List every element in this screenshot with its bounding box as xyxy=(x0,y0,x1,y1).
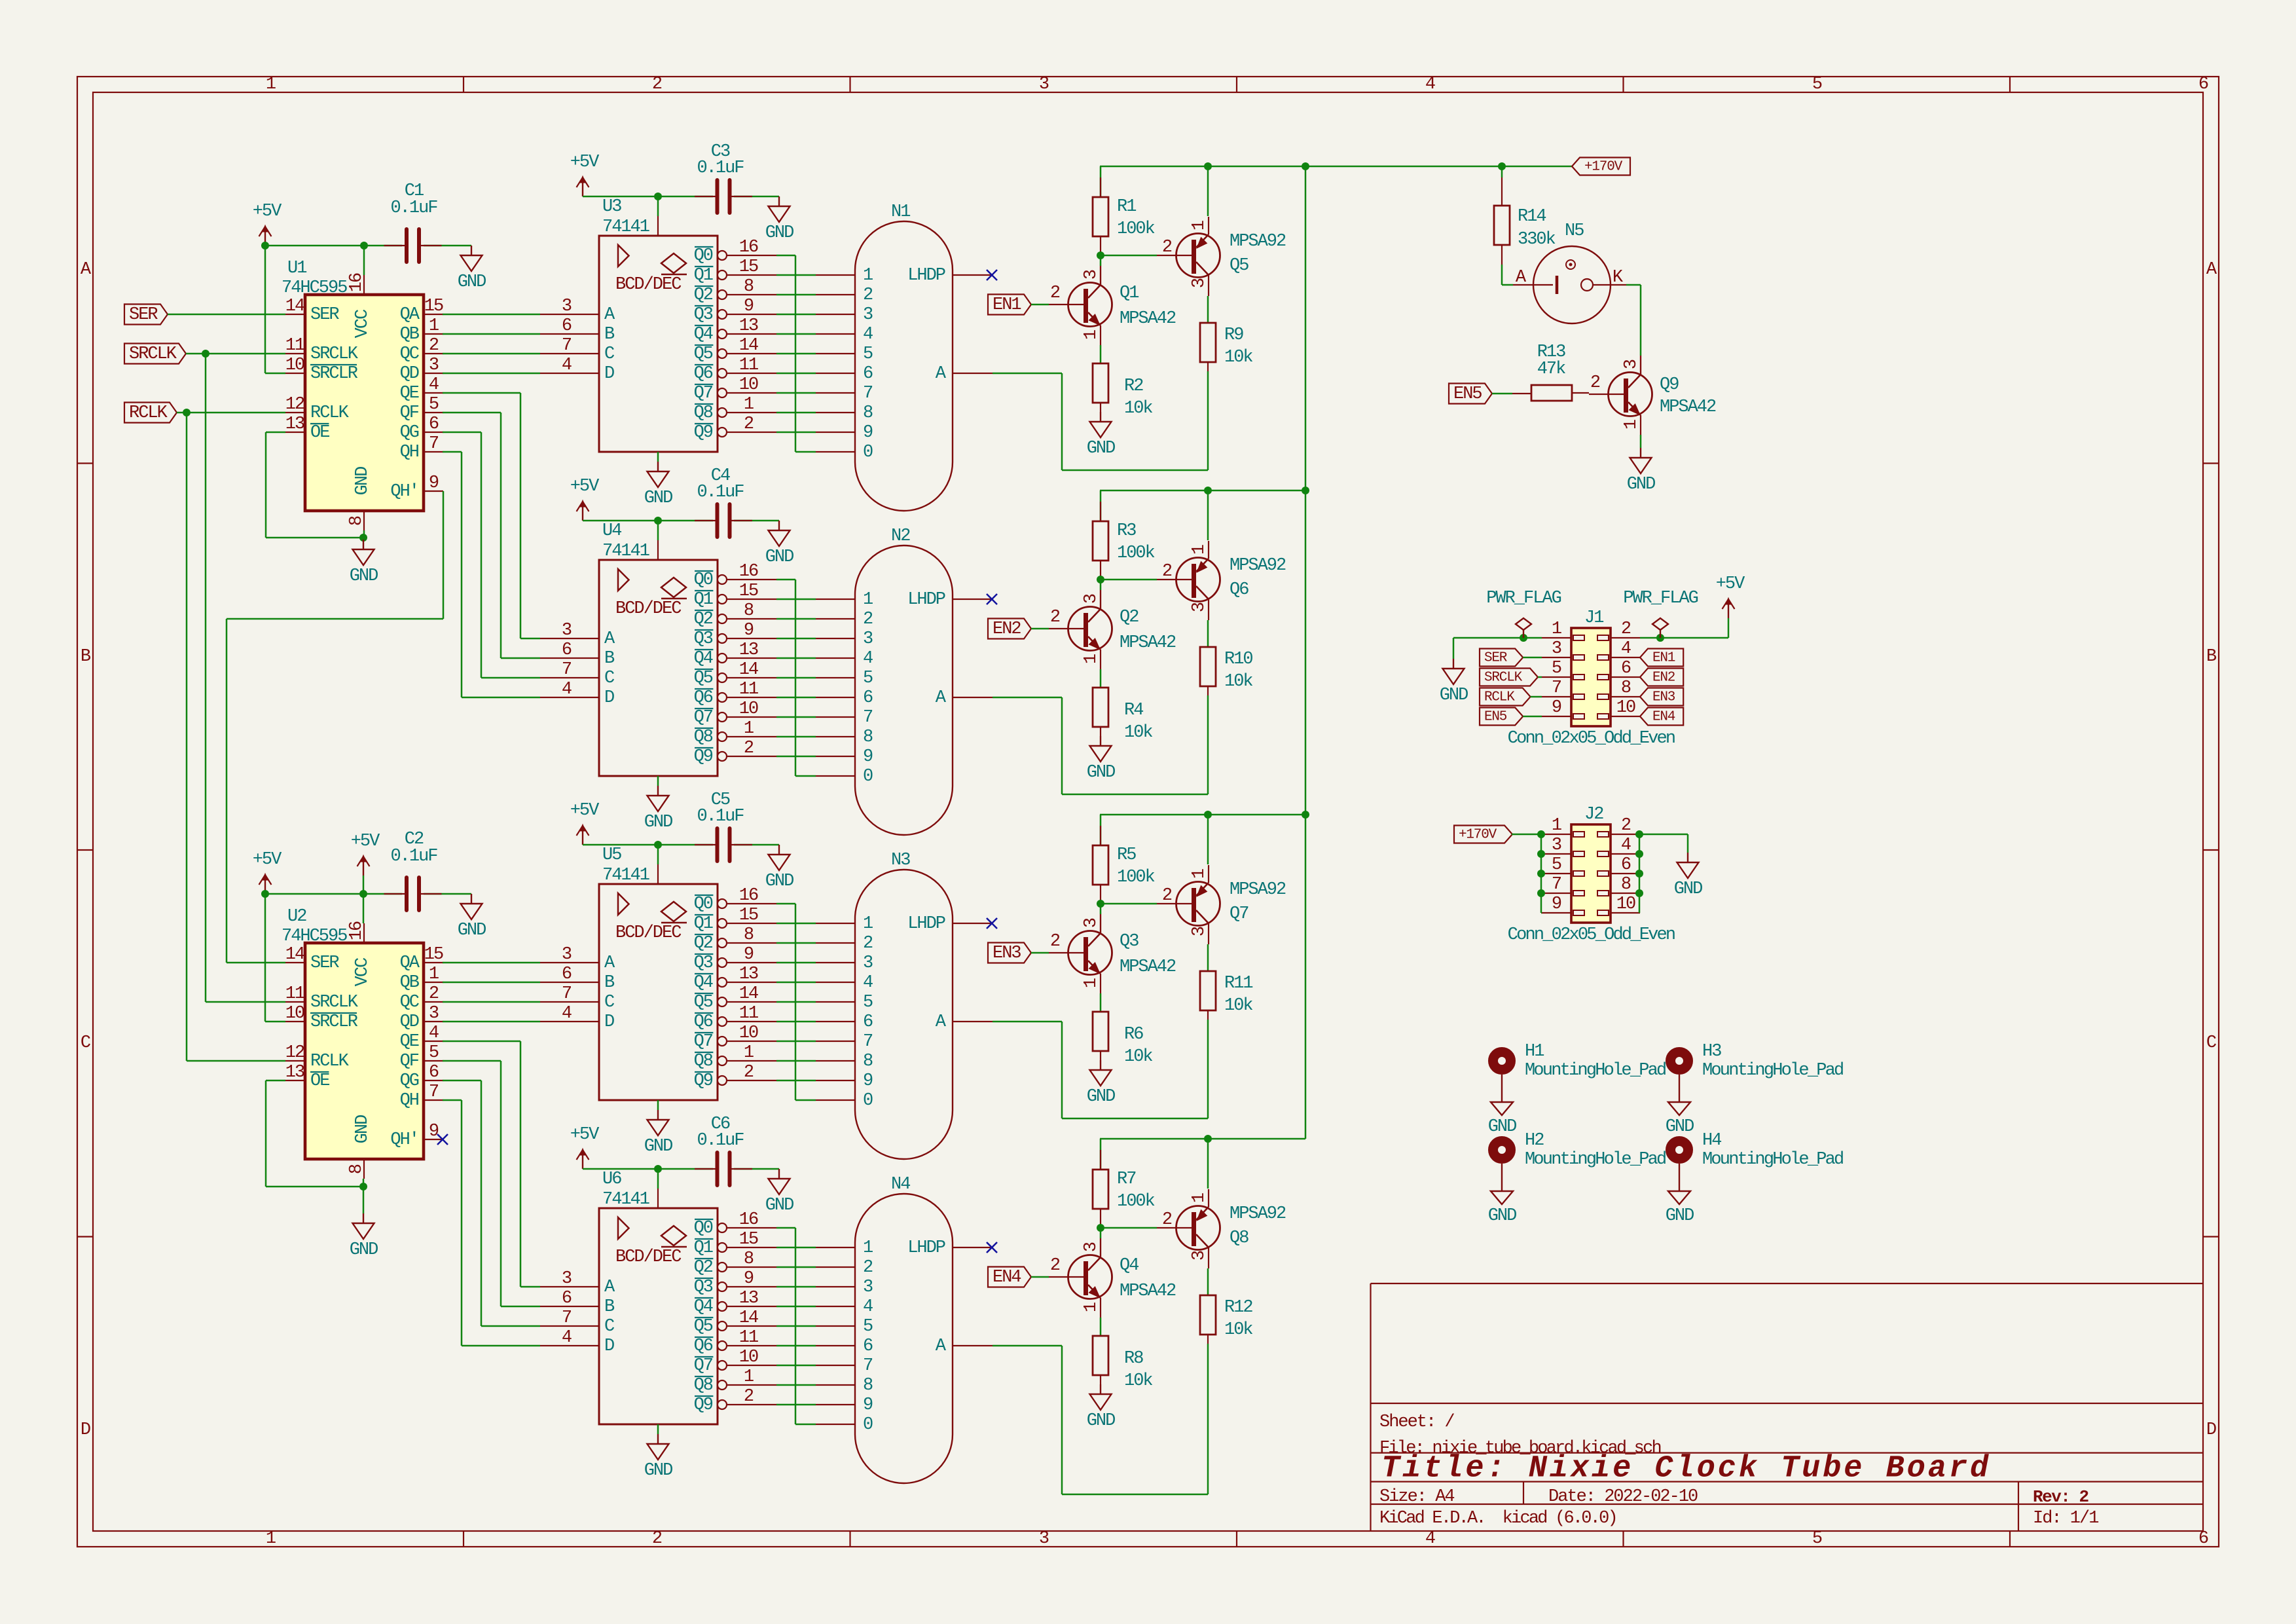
svg-text:7: 7 xyxy=(863,384,873,403)
svg-text:BCD/DEC: BCD/DEC xyxy=(615,1247,682,1267)
svg-text:74141: 74141 xyxy=(602,217,649,237)
svg-text:15: 15 xyxy=(739,581,758,601)
svg-text:2: 2 xyxy=(1621,816,1631,836)
svg-text:3: 3 xyxy=(1082,918,1101,928)
svg-text:14: 14 xyxy=(739,660,758,680)
svg-text:MountingHole_Pad: MountingHole_Pad xyxy=(1525,1061,1666,1080)
svg-text:D: D xyxy=(604,364,614,384)
svg-text:7: 7 xyxy=(863,1032,873,1052)
svg-text:16: 16 xyxy=(347,921,367,940)
svg-text:1: 1 xyxy=(863,266,873,286)
svg-text:EN3: EN3 xyxy=(1652,690,1675,705)
svg-text:14: 14 xyxy=(739,1308,758,1328)
svg-text:Q4: Q4 xyxy=(694,325,713,344)
svg-text:Q6: Q6 xyxy=(694,1337,713,1356)
svg-text:Q5: Q5 xyxy=(694,1317,713,1337)
svg-text:QH: QH xyxy=(400,443,419,462)
svg-text:16: 16 xyxy=(739,886,758,906)
svg-text:Q5: Q5 xyxy=(1230,256,1248,276)
svg-text:QG: QG xyxy=(400,1071,419,1091)
svg-text:10k: 10k xyxy=(1224,996,1252,1016)
svg-text:Q4: Q4 xyxy=(694,649,713,669)
svg-text:C: C xyxy=(604,1317,615,1337)
svg-text:+5V: +5V xyxy=(570,801,600,821)
svg-text:U2: U2 xyxy=(287,907,306,927)
svg-text:2: 2 xyxy=(652,75,662,94)
svg-text:Conn_02x05_Odd_Even: Conn_02x05_Odd_Even xyxy=(1508,729,1675,748)
svg-text:SRCLR: SRCLR xyxy=(310,364,358,384)
svg-text:11: 11 xyxy=(285,984,304,1004)
svg-text:8: 8 xyxy=(863,1052,873,1071)
svg-text:16: 16 xyxy=(739,562,758,581)
svg-text:10k: 10k xyxy=(1224,1320,1252,1340)
svg-text:9: 9 xyxy=(863,423,873,443)
svg-text:4: 4 xyxy=(429,375,439,395)
svg-text:Q4: Q4 xyxy=(1120,1256,1139,1276)
svg-text:2: 2 xyxy=(652,1529,662,1549)
svg-text:1: 1 xyxy=(863,1238,873,1258)
svg-text:GND: GND xyxy=(350,566,378,586)
svg-text:1: 1 xyxy=(429,965,439,984)
svg-text:7: 7 xyxy=(1552,875,1561,895)
svg-text:8: 8 xyxy=(863,728,873,747)
svg-text:LHDP: LHDP xyxy=(907,266,945,286)
svg-text:Q8: Q8 xyxy=(694,403,713,423)
svg-text:Q9: Q9 xyxy=(694,747,713,767)
svg-text:14: 14 xyxy=(285,297,304,316)
svg-text:H2: H2 xyxy=(1525,1131,1544,1151)
svg-text:1: 1 xyxy=(744,1367,754,1387)
svg-text:6: 6 xyxy=(863,364,873,384)
svg-text:EN1: EN1 xyxy=(993,295,1021,315)
svg-text:2: 2 xyxy=(1162,1210,1172,1230)
svg-text:GND: GND xyxy=(1440,686,1468,705)
svg-text:QA: QA xyxy=(400,953,420,973)
svg-text:GND: GND xyxy=(1087,1411,1115,1431)
svg-text:9: 9 xyxy=(744,621,754,640)
svg-text:H4: H4 xyxy=(1702,1131,1721,1151)
svg-text:1: 1 xyxy=(1552,619,1561,639)
svg-text:2: 2 xyxy=(1162,886,1172,906)
svg-text:SRCLR: SRCLR xyxy=(310,1012,358,1032)
svg-text:+170V: +170V xyxy=(1584,160,1623,175)
svg-text:2: 2 xyxy=(863,610,873,629)
svg-text:1: 1 xyxy=(1082,1302,1101,1312)
svg-text:5: 5 xyxy=(1812,75,1822,94)
svg-text:QH': QH' xyxy=(390,482,418,502)
svg-text:D: D xyxy=(604,688,614,708)
svg-text:N1: N1 xyxy=(891,202,910,222)
svg-text:4: 4 xyxy=(863,649,873,669)
svg-text:Q1: Q1 xyxy=(694,590,713,610)
svg-text:QG: QG xyxy=(400,423,419,443)
svg-text:2: 2 xyxy=(863,286,873,305)
svg-text:GND: GND xyxy=(1087,1087,1115,1107)
svg-text:5: 5 xyxy=(863,344,873,364)
svg-text:3: 3 xyxy=(863,1278,873,1297)
svg-text:Q4: Q4 xyxy=(694,1297,713,1317)
svg-text:6: 6 xyxy=(863,688,873,708)
svg-text:LHDP: LHDP xyxy=(907,1238,945,1258)
svg-text:MPSA92: MPSA92 xyxy=(1230,556,1286,576)
svg-text:3: 3 xyxy=(562,1269,572,1289)
svg-text:+5V: +5V xyxy=(253,202,282,221)
svg-text:RCLK: RCLK xyxy=(1484,690,1515,705)
svg-text:1: 1 xyxy=(863,590,873,610)
svg-text:U3: U3 xyxy=(602,197,621,217)
svg-text:GND: GND xyxy=(765,223,793,243)
svg-text:330k: 330k xyxy=(1518,230,1556,249)
svg-text:Q6: Q6 xyxy=(694,364,713,384)
svg-text:Q7: Q7 xyxy=(694,384,713,403)
svg-text:15: 15 xyxy=(739,257,758,277)
svg-text:Q1: Q1 xyxy=(694,1238,713,1258)
svg-text:2: 2 xyxy=(1590,373,1600,393)
svg-text:1: 1 xyxy=(1190,1193,1209,1203)
svg-text:0: 0 xyxy=(863,1091,873,1111)
svg-text:GND: GND xyxy=(1674,879,1702,899)
svg-text:Q2: Q2 xyxy=(694,934,713,953)
svg-text:GND: GND xyxy=(644,1137,672,1156)
svg-text:SER: SER xyxy=(310,305,339,325)
svg-text:0.1uF: 0.1uF xyxy=(697,807,744,826)
svg-text:GND: GND xyxy=(353,1115,373,1143)
svg-text:9: 9 xyxy=(863,1071,873,1091)
svg-text:47k: 47k xyxy=(1537,360,1565,379)
svg-text:D: D xyxy=(81,1420,90,1440)
svg-text:4: 4 xyxy=(429,1024,439,1043)
svg-text:Q4: Q4 xyxy=(694,973,713,993)
svg-text:0.1uF: 0.1uF xyxy=(697,158,744,178)
svg-text:1: 1 xyxy=(266,1529,276,1549)
svg-text:4: 4 xyxy=(1425,75,1435,94)
svg-text:5: 5 xyxy=(1552,659,1561,678)
svg-text:6: 6 xyxy=(429,1063,439,1082)
svg-text:+5V: +5V xyxy=(570,153,600,172)
svg-text:2: 2 xyxy=(744,1387,754,1407)
svg-text:4: 4 xyxy=(562,1004,572,1024)
svg-text:1: 1 xyxy=(266,75,276,94)
svg-text:+170V: +170V xyxy=(1459,828,1497,843)
svg-text:GND: GND xyxy=(765,1196,793,1215)
svg-text:7: 7 xyxy=(429,434,439,454)
svg-text:R11: R11 xyxy=(1224,974,1252,993)
svg-text:B: B xyxy=(604,649,615,669)
svg-text:Size: A4: Size: A4 xyxy=(1379,1487,1454,1507)
svg-text:Q5: Q5 xyxy=(694,344,713,364)
svg-text:H1: H1 xyxy=(1525,1042,1544,1061)
svg-text:Q9: Q9 xyxy=(694,423,713,443)
svg-text:7: 7 xyxy=(863,708,873,728)
svg-text:R6: R6 xyxy=(1124,1025,1143,1044)
svg-text:EN5: EN5 xyxy=(1484,710,1507,725)
svg-text:3: 3 xyxy=(1190,278,1209,288)
svg-text:4: 4 xyxy=(863,1297,873,1317)
svg-text:Q2: Q2 xyxy=(694,286,713,305)
svg-text:4: 4 xyxy=(863,325,873,344)
svg-text:9: 9 xyxy=(1552,698,1561,718)
svg-text:1: 1 xyxy=(1552,816,1561,836)
svg-text:R3: R3 xyxy=(1117,521,1136,541)
svg-text:D: D xyxy=(604,1012,614,1032)
svg-text:Q1: Q1 xyxy=(694,266,713,286)
svg-text:8: 8 xyxy=(347,1164,367,1174)
svg-text:D: D xyxy=(604,1337,614,1356)
svg-text:QE: QE xyxy=(400,1032,419,1052)
svg-text:R10: R10 xyxy=(1224,650,1252,669)
svg-text:QF: QF xyxy=(400,403,419,423)
svg-text:GND: GND xyxy=(353,467,373,495)
svg-text:11: 11 xyxy=(739,356,758,375)
svg-text:5: 5 xyxy=(863,669,873,688)
svg-text:0.1uF: 0.1uF xyxy=(697,483,744,502)
svg-text:15: 15 xyxy=(739,1230,758,1249)
svg-text:9: 9 xyxy=(429,473,439,493)
svg-text:13: 13 xyxy=(739,316,758,336)
svg-text:+5V: +5V xyxy=(570,1125,600,1145)
svg-text:R14: R14 xyxy=(1518,207,1546,227)
svg-text:74141: 74141 xyxy=(602,866,649,885)
svg-text:Q8: Q8 xyxy=(1230,1228,1248,1248)
svg-text:MPSA42: MPSA42 xyxy=(1120,1282,1176,1301)
svg-text:3: 3 xyxy=(1190,1251,1209,1261)
svg-text:6: 6 xyxy=(863,1337,873,1356)
svg-text:6: 6 xyxy=(429,415,439,434)
svg-text:1: 1 xyxy=(1190,869,1209,879)
svg-text:B: B xyxy=(604,325,615,344)
svg-text:100k: 100k xyxy=(1117,868,1155,887)
svg-text:8: 8 xyxy=(863,1376,873,1395)
svg-text:3: 3 xyxy=(863,953,873,973)
svg-text:Id: 1/1: Id: 1/1 xyxy=(2033,1509,2098,1528)
svg-text:2: 2 xyxy=(1050,608,1060,627)
svg-text:PWR_FLAG: PWR_FLAG xyxy=(1486,589,1561,608)
svg-text:SRCLK: SRCLK xyxy=(1484,671,1523,686)
svg-text:1: 1 xyxy=(429,316,439,336)
svg-text:2: 2 xyxy=(744,415,754,434)
svg-text:6: 6 xyxy=(1621,855,1631,875)
svg-text:B: B xyxy=(81,647,91,667)
svg-text:6: 6 xyxy=(2198,75,2208,94)
svg-text:Q8: Q8 xyxy=(694,728,713,747)
svg-text:N3: N3 xyxy=(891,851,910,870)
svg-text:Q9: Q9 xyxy=(1660,375,1679,395)
svg-text:7: 7 xyxy=(562,1308,572,1328)
svg-text:KiCad E.D.A. kicad (6.0.0): KiCad E.D.A. kicad (6.0.0) xyxy=(1379,1509,1616,1528)
svg-text:1: 1 xyxy=(744,395,754,415)
svg-text:Title: Nixie Clock Tube Board: Title: Nixie Clock Tube Board xyxy=(1381,1452,1991,1486)
svg-text:7: 7 xyxy=(429,1082,439,1102)
svg-text:7: 7 xyxy=(562,984,572,1004)
svg-text:2: 2 xyxy=(1162,238,1172,257)
svg-text:5: 5 xyxy=(863,1317,873,1337)
svg-text:Q7: Q7 xyxy=(694,708,713,728)
svg-text:15: 15 xyxy=(424,297,443,316)
svg-text:10: 10 xyxy=(739,699,758,719)
svg-text:10: 10 xyxy=(285,356,304,375)
svg-text:Q8: Q8 xyxy=(694,1052,713,1071)
svg-text:EN4: EN4 xyxy=(993,1268,1021,1287)
svg-text:9: 9 xyxy=(744,297,754,316)
svg-text:4: 4 xyxy=(1621,836,1631,855)
svg-text:16: 16 xyxy=(739,238,758,257)
svg-text:3: 3 xyxy=(562,945,572,965)
svg-text:R8: R8 xyxy=(1124,1349,1143,1369)
svg-text:Q2: Q2 xyxy=(694,610,713,629)
svg-text:4: 4 xyxy=(863,973,873,993)
svg-text:LHDP: LHDP xyxy=(907,914,945,934)
svg-text:13: 13 xyxy=(285,415,304,434)
svg-text:6: 6 xyxy=(1621,659,1631,678)
svg-text:1: 1 xyxy=(744,719,754,739)
svg-text:Q2: Q2 xyxy=(1120,608,1139,627)
svg-text:9: 9 xyxy=(863,747,873,767)
svg-text:8: 8 xyxy=(863,403,873,423)
svg-text:Q5: Q5 xyxy=(694,993,713,1012)
svg-text:10: 10 xyxy=(739,1024,758,1043)
svg-text:Q0: Q0 xyxy=(694,246,713,266)
svg-text:B: B xyxy=(2206,647,2217,667)
svg-text:15: 15 xyxy=(424,945,443,965)
svg-text:3: 3 xyxy=(429,356,439,375)
svg-text:QC: QC xyxy=(400,344,420,364)
svg-text:4: 4 xyxy=(562,680,572,699)
svg-text:EN4: EN4 xyxy=(1652,710,1675,725)
svg-text:5: 5 xyxy=(429,1043,439,1063)
svg-text:10k: 10k xyxy=(1124,1047,1152,1067)
svg-text:GND: GND xyxy=(350,1240,378,1260)
svg-text:QD: QD xyxy=(400,364,419,384)
svg-text:16: 16 xyxy=(347,273,367,292)
svg-text:2: 2 xyxy=(1050,284,1060,303)
svg-text:J1: J1 xyxy=(1584,608,1603,628)
svg-text:3: 3 xyxy=(1552,639,1561,659)
svg-text:13: 13 xyxy=(739,1289,758,1308)
svg-text:QF: QF xyxy=(400,1052,419,1071)
svg-text:13: 13 xyxy=(739,965,758,984)
svg-text:Q3: Q3 xyxy=(1120,932,1139,951)
svg-text:Q7: Q7 xyxy=(694,1032,713,1052)
svg-text:GND: GND xyxy=(765,547,793,567)
svg-text:2: 2 xyxy=(863,1258,873,1278)
svg-text:8: 8 xyxy=(744,277,754,297)
svg-text:J2: J2 xyxy=(1584,805,1603,824)
svg-text:5: 5 xyxy=(429,395,439,415)
svg-text:Q8: Q8 xyxy=(694,1376,713,1395)
svg-text:13: 13 xyxy=(739,640,758,660)
svg-text:3: 3 xyxy=(1039,1529,1049,1549)
svg-text:Q3: Q3 xyxy=(694,953,713,973)
svg-text:8: 8 xyxy=(744,601,754,621)
svg-text:8: 8 xyxy=(744,1249,754,1269)
svg-text:3: 3 xyxy=(1622,360,1641,369)
svg-text:GND: GND xyxy=(1488,1206,1516,1226)
svg-text:MPSA92: MPSA92 xyxy=(1230,232,1286,251)
svg-text:Q0: Q0 xyxy=(694,1219,713,1238)
svg-text:U5: U5 xyxy=(602,845,621,865)
svg-text:3: 3 xyxy=(1190,602,1209,612)
svg-text:1: 1 xyxy=(1190,221,1209,231)
svg-text:GND: GND xyxy=(1666,1117,1694,1137)
svg-text:11: 11 xyxy=(739,680,758,699)
svg-text:EN5: EN5 xyxy=(1453,384,1482,404)
svg-text:11: 11 xyxy=(739,1004,758,1024)
svg-text:6: 6 xyxy=(562,316,572,336)
svg-text:1: 1 xyxy=(863,914,873,934)
svg-text:15: 15 xyxy=(739,906,758,925)
svg-text:1: 1 xyxy=(1082,654,1101,664)
svg-text:U4: U4 xyxy=(602,521,621,541)
svg-text:10: 10 xyxy=(739,1348,758,1367)
svg-text:Q0: Q0 xyxy=(694,570,713,590)
svg-text:10: 10 xyxy=(1616,698,1635,718)
svg-text:+5V: +5V xyxy=(351,832,380,851)
svg-text:Q7: Q7 xyxy=(1230,904,1248,924)
svg-text:N5: N5 xyxy=(1565,221,1584,241)
svg-text:Conn_02x05_Odd_Even: Conn_02x05_Odd_Even xyxy=(1508,925,1675,945)
svg-text:0.1uF: 0.1uF xyxy=(390,198,437,218)
svg-text:2: 2 xyxy=(863,934,873,953)
svg-text:MPSA42: MPSA42 xyxy=(1120,309,1176,329)
svg-text:EN2: EN2 xyxy=(993,619,1021,639)
svg-text:RCLK: RCLK xyxy=(129,403,168,423)
svg-text:R4: R4 xyxy=(1124,701,1143,720)
svg-text:R12: R12 xyxy=(1224,1298,1252,1318)
svg-text:+5V: +5V xyxy=(1716,574,1745,594)
svg-text:3: 3 xyxy=(562,621,572,640)
svg-text:EN3: EN3 xyxy=(993,944,1021,963)
svg-text:11: 11 xyxy=(285,336,304,356)
svg-text:GND: GND xyxy=(1627,475,1655,494)
svg-text:1: 1 xyxy=(1082,978,1101,988)
svg-text:2: 2 xyxy=(1162,562,1172,581)
svg-text:6: 6 xyxy=(562,640,572,660)
svg-text:QH': QH' xyxy=(390,1130,418,1150)
svg-text:7: 7 xyxy=(863,1356,873,1376)
svg-text:11: 11 xyxy=(739,1328,758,1348)
svg-text:1: 1 xyxy=(1622,420,1641,430)
svg-text:QB: QB xyxy=(400,325,420,344)
svg-text:VCC: VCC xyxy=(353,309,373,338)
svg-text:9: 9 xyxy=(863,1395,873,1415)
svg-text:SER: SER xyxy=(310,953,339,973)
svg-text:R7: R7 xyxy=(1117,1170,1136,1189)
svg-text:2: 2 xyxy=(429,984,439,1004)
svg-text:R5: R5 xyxy=(1117,845,1136,865)
svg-text:MountingHole_Pad: MountingHole_Pad xyxy=(1702,1061,1843,1080)
svg-text:2: 2 xyxy=(1621,619,1631,639)
svg-text:Q5: Q5 xyxy=(694,669,713,688)
svg-text:16: 16 xyxy=(739,1210,758,1230)
svg-text:QC: QC xyxy=(400,993,420,1012)
svg-text:C: C xyxy=(81,1033,91,1053)
svg-text:N4: N4 xyxy=(891,1175,910,1194)
svg-text:2: 2 xyxy=(1050,932,1060,951)
svg-text:3: 3 xyxy=(863,305,873,325)
svg-text:SRCLK: SRCLK xyxy=(129,344,177,364)
svg-text:RCLK: RCLK xyxy=(310,1052,350,1071)
svg-text:3: 3 xyxy=(1082,1242,1101,1252)
svg-text:B: B xyxy=(604,973,615,993)
svg-text:10k: 10k xyxy=(1124,723,1152,743)
svg-text:BCD/DEC: BCD/DEC xyxy=(615,923,682,943)
svg-text:OE: OE xyxy=(310,1071,329,1091)
svg-text:LHDP: LHDP xyxy=(907,590,945,610)
svg-text:4: 4 xyxy=(562,356,572,375)
svg-text:4: 4 xyxy=(1621,639,1631,659)
svg-text:R9: R9 xyxy=(1224,325,1243,345)
svg-text:Q2: Q2 xyxy=(694,1258,713,1278)
